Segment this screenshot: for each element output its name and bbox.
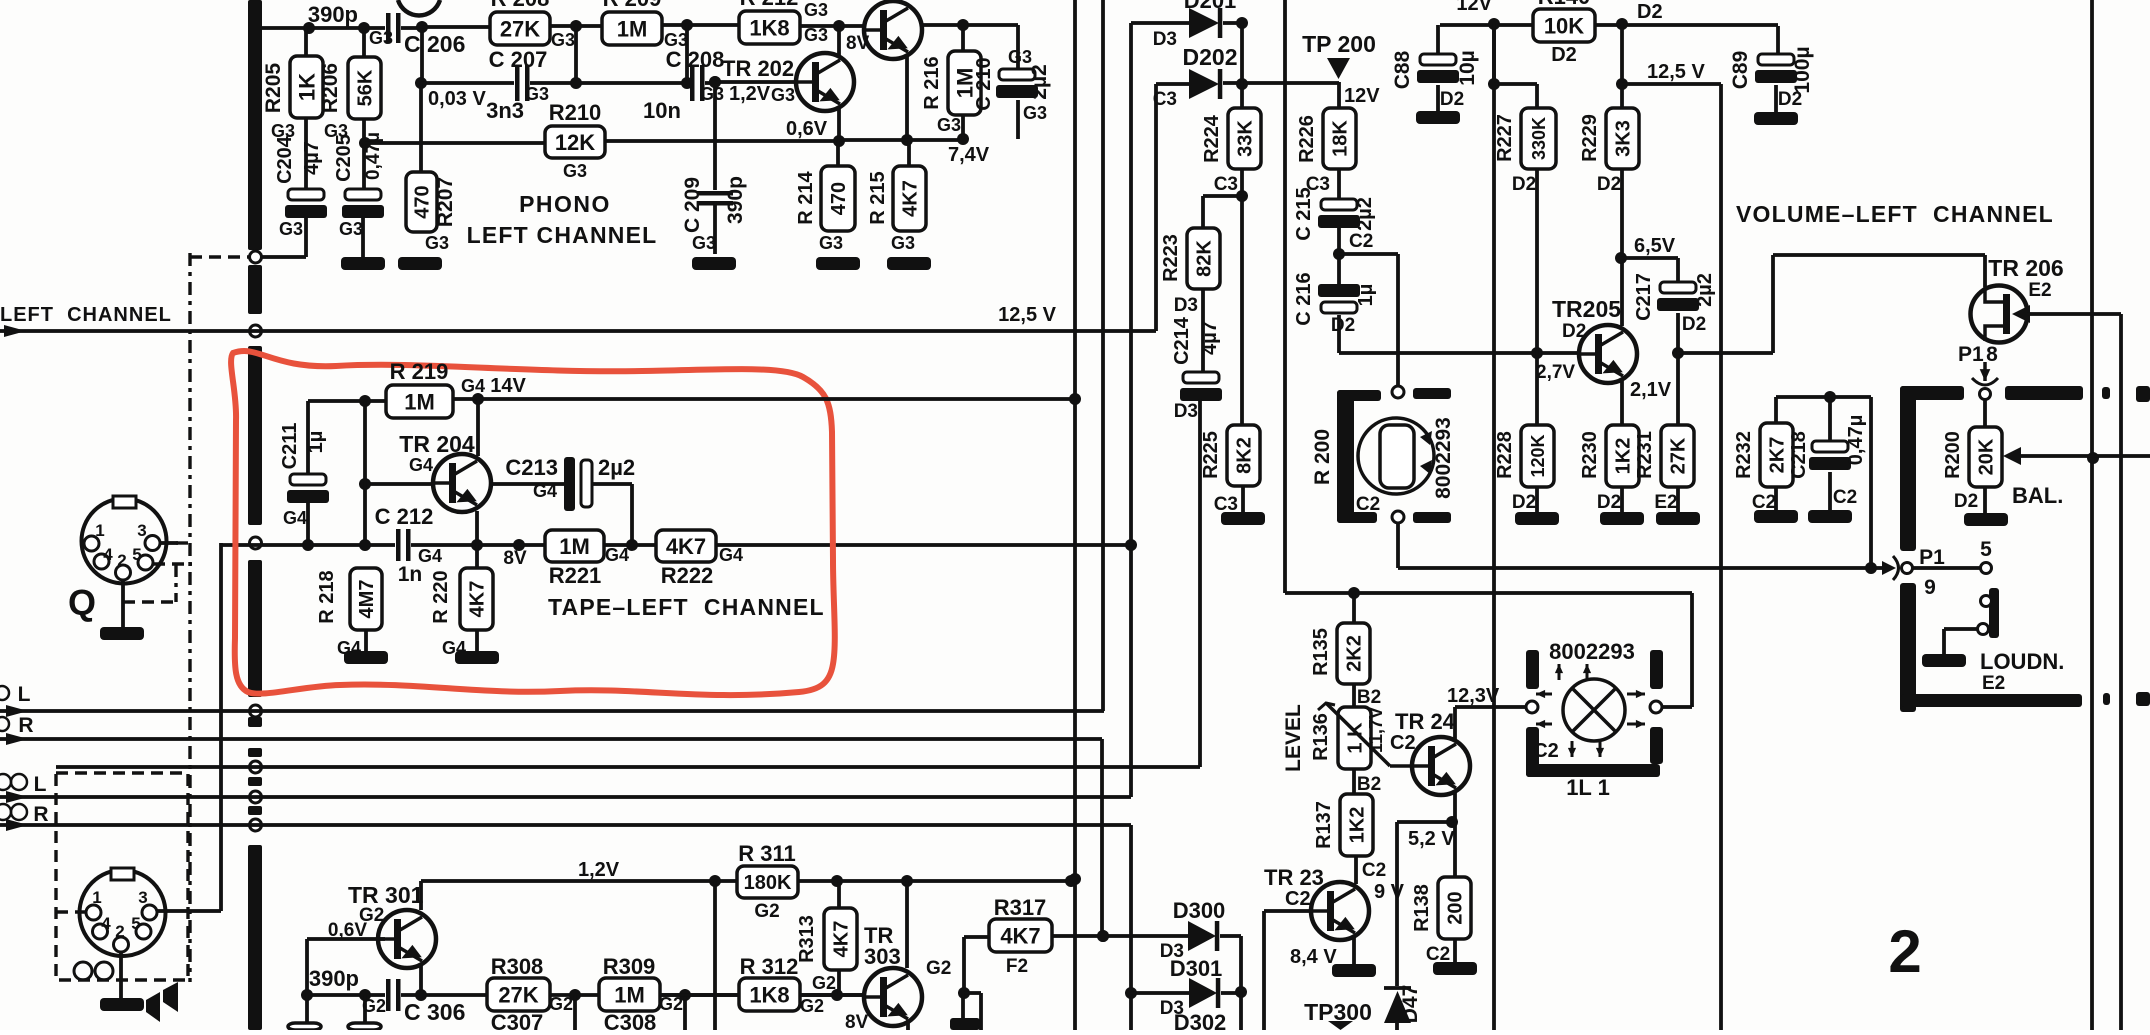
svg-text:L: L [18,683,31,706]
capacitor C212 1n [395,529,411,561]
svg-text:0,03 V: 0,03 V [428,88,486,110]
svg-text:TR 202: TR 202 [722,56,794,81]
svg-text:3n3: 3n3 [486,98,524,123]
svg-text:390p: 390p [308,2,358,27]
resistor R212 1K8 [739,11,800,44]
transistor TR301 [378,910,436,968]
ground pin2 of DIN Q [121,580,125,627]
wire link x687 [662,23,739,27]
svg-text:12,5 V: 12,5 V [998,304,1056,326]
svg-text:3: 3 [138,888,147,907]
label OO R [0,804,11,820]
wire C204 to bus circle [304,216,308,257]
svg-text:56K: 56K [355,69,377,106]
svg-text:LEFT CHANNEL: LEFT CHANNEL [467,222,658,248]
capacitor C88 10u [1436,25,1440,54]
svg-text:2: 2 [115,922,124,941]
node: bus contact circles [250,251,262,263]
resistor R226 18K [1323,108,1356,169]
resistor R137 1K2 [1352,769,1356,794]
svg-text:1M: 1M [559,534,590,559]
transistor TR201 arc (cut at top) [398,0,440,15]
resistor R221 1M [545,530,604,562]
svg-text:470: 470 [828,182,850,215]
svg-text:330K: 330K [1529,117,1549,160]
resistor R210 12K [545,126,605,158]
svg-text:TR205: TR205 [1552,296,1621,322]
svg-text:4µ7: 4µ7 [1199,321,1221,355]
svg-text:R226: R226 [1296,115,1318,163]
resistor R229 3K3 [1606,108,1639,169]
svg-text:R227: R227 [1494,114,1516,162]
svg-text:LEFT CHANNEL: LEFT CHANNEL [0,304,172,326]
svg-text:R225: R225 [1200,431,1222,479]
resistor R308 27K [487,978,550,1011]
svg-text:D2: D2 [1512,174,1536,195]
resistor R209 1M [602,12,662,45]
svg-text:12,5 V: 12,5 V [1647,61,1705,83]
resistor R138 200 [1453,822,1457,877]
wire 0,6V emitter rail y140 [833,135,845,147]
svg-text:D2: D2 [1597,174,1621,195]
svg-text:14V: 14V [490,375,526,397]
wire C216 to TR205 base rail y353 [1337,315,1341,353]
svg-text:G3: G3 [279,219,303,239]
svg-text:12V: 12V [1344,85,1380,107]
svg-text:R317: R317 [994,895,1047,920]
svg-text:12K: 12K [555,130,595,155]
wires DIN Q pins to shield [159,541,178,545]
stub resistors bottom edge [305,995,309,1023]
wire lower DIN pin3 [157,909,221,913]
bar stub right edge [2136,386,2150,402]
svg-text:R210: R210 [549,100,602,125]
svg-text:2,1V: 2,1V [1630,379,1672,401]
svg-text:R206: R206 [319,63,342,113]
svg-text:1M: 1M [617,16,648,41]
svg-text:82K: 82K [1194,240,1216,277]
junction dots middle verticals [1069,393,1081,405]
wire C218 node to P1 wire [1869,397,1873,568]
svg-text:R228: R228 [1494,431,1516,479]
svg-text:5,2 V: 5,2 V [1408,828,1455,850]
svg-text:C89: C89 [1729,51,1752,90]
svg-text:D301: D301 [1170,956,1223,981]
svg-text:8: 8 [1986,343,1998,366]
wire x1537 down [1535,169,1539,425]
wire link x578 [550,24,602,28]
resistor R311 180K [737,866,798,898]
transistor TR303 [864,968,922,1026]
svg-text:1n: 1n [398,563,423,586]
svg-text:8,4 V: 8,4 V [1290,946,1337,968]
svg-text:R 215: R 215 [867,171,889,224]
wire TR301 emitter [419,966,423,995]
wire 14V y399 [453,397,1075,401]
svg-text:C 209: C 209 [681,177,704,233]
svg-text:G2: G2 [549,994,573,1014]
svg-text:C 212: C 212 [375,504,434,529]
motor potentiometer R200 enclosure [1337,390,1354,523]
svg-text:4K7: 4K7 [467,581,489,618]
svg-text:1M: 1M [614,982,645,1007]
svg-text:G2: G2 [754,901,779,922]
diode D201 [1131,21,1189,25]
wire P1 9-5 [1398,566,1884,570]
wire TR24 collector to IL1 [1453,707,1457,739]
resistor R206 56K [362,28,366,57]
node C2 under C215 [1337,228,1341,284]
ground under C205 [361,216,365,257]
svg-text:G2: G2 [926,958,951,979]
svg-text:G3: G3 [771,85,795,105]
svg-text:4K7: 4K7 [900,180,922,217]
svg-text:D300: D300 [1173,898,1226,923]
svg-text:C2: C2 [1362,860,1386,881]
svg-text:27K: 27K [1668,437,1690,474]
wire R317 to D300 [1052,934,1188,938]
wire top rail y28 [262,26,388,30]
svg-text:D2: D2 [1637,1,1663,23]
IL1 arrows [1558,664,1561,680]
wire TR204 base [365,482,433,486]
svg-text:303: 303 [864,944,901,969]
svg-text:1K2: 1K2 [1347,807,1369,844]
record player icon circles [74,962,92,980]
svg-text:C204: C204 [274,135,296,184]
svg-text:C2: C2 [1285,888,1311,910]
svg-text:R135: R135 [1310,628,1332,676]
LOUDN pins [1981,596,1992,607]
wire bus line 4 [0,795,1131,799]
svg-text:R: R [18,714,33,737]
svg-text:D2: D2 [1331,315,1355,336]
svg-text:C217: C217 [1633,273,1655,321]
speaker icons [146,992,160,1022]
wire vertical x2092 (sheet border) [2090,0,2094,1030]
svg-text:C211: C211 [279,423,301,470]
wire C215 tap to lamp [1339,252,1398,256]
wire D201 cathode [1223,21,1242,25]
svg-text:R: R [33,803,48,826]
svg-text:27K: 27K [500,16,540,41]
svg-text:P1: P1 [1919,546,1945,569]
wire TR301 base [307,937,385,941]
svg-text:4K7: 4K7 [666,534,706,559]
svg-text:2K7: 2K7 [1767,437,1789,474]
svg-text:2K2: 2K2 [1344,635,1366,672]
svg-text:G4: G4 [719,545,743,565]
svg-text:G4: G4 [461,376,485,396]
transistor TR204 [433,454,491,512]
transistor TR205 [1579,325,1637,383]
svg-text:D302: D302 [1174,1010,1227,1030]
transistor TR206 [1971,286,2028,343]
wire vertical x1075 [1073,0,1077,1030]
svg-text:G2: G2 [659,994,683,1014]
capacitor C211 1u [306,401,310,474]
capacitor C215 2u2 [1337,169,1341,199]
svg-text:33K: 33K [1235,120,1257,157]
svg-text:G3: G3 [525,84,549,104]
resistor R223 82K [1187,228,1220,289]
wire feedback 12K y143 [365,141,545,145]
svg-text:G3: G3 [891,233,915,253]
resistor R214 470 [836,141,840,166]
svg-text:R205: R205 [262,63,285,114]
DIN connector lower [80,870,166,956]
svg-text:R 219: R 219 [390,359,449,384]
label OO L [0,774,11,790]
svg-text:G3: G3 [1023,103,1047,123]
svg-text:G3: G3 [804,25,828,45]
potentiometer R200 20K BAL [1983,399,1987,427]
svg-text:1µ: 1µ [305,431,327,454]
resistor R215 4K7 [907,140,911,166]
svg-text:18K: 18K [1330,120,1352,157]
wire x715 lower [713,881,717,1030]
capacitor C214 4u7 [1201,289,1205,372]
thick bars around P1-8 [1900,386,1964,400]
svg-text:120K: 120K [1528,434,1548,477]
svg-text:D2: D2 [1440,89,1464,110]
wire TR202 base [715,80,796,84]
svg-text:4K7: 4K7 [831,921,853,958]
svg-text:4M7: 4M7 [356,580,378,619]
label Q L [0,686,9,700]
svg-text:R207: R207 [434,177,457,227]
wire 12V rail y25 [1440,23,1533,27]
capacitor C213 2u2 [491,482,564,486]
svg-text:P1: P1 [1958,343,1984,366]
svg-text:R229: R229 [1579,114,1601,162]
svg-text:C2: C2 [1752,492,1776,513]
svg-text:R230: R230 [1579,431,1601,479]
wire vertical x1102 lower [1100,739,1104,936]
svg-text:390p: 390p [309,966,359,991]
svg-text:R 311: R 311 [738,841,796,866]
svg-text:TR 206: TR 206 [1988,255,2063,281]
svg-text:D3: D3 [1174,401,1198,422]
resistor R224 33K [1228,108,1261,169]
resistor R227 330K [1535,84,1539,108]
svg-text:G3: G3 [563,161,587,181]
transistor TR203 [864,1,922,59]
capacitor C208 10n [689,65,705,101]
svg-text:D201: D201 [1184,0,1237,13]
resistor R216 1M [961,25,965,51]
svg-text:R222: R222 [661,563,714,588]
svg-text:C 206: C 206 [404,31,465,57]
diode D202 [1156,82,1189,86]
svg-text:C2: C2 [1356,494,1380,515]
wire TR204 emitter riser [475,511,479,545]
tick right edge near x2106 [2102,387,2110,399]
svg-text:C213: C213 [505,455,558,480]
svg-text:2: 2 [117,551,126,570]
LOUDN enclosure bars [1900,583,1916,712]
wire riser to D202 [1154,84,1158,331]
wire R136 wiper to TR24 base [1390,764,1412,768]
svg-text:10µ: 10µ [1456,50,1479,85]
svg-text:C205: C205 [333,134,355,182]
capacitor C306 390p [385,979,401,1011]
svg-text:C2: C2 [1390,732,1416,754]
capacitor C218 0,47u [1828,397,1832,441]
svg-text:Q: Q [68,582,96,623]
svg-text:12V: 12V [1456,0,1492,15]
wire R212 to TR203 [800,24,864,28]
resistor R207 470 [419,83,423,172]
svg-text:G3: G3 [425,233,449,253]
resistor R220 4K7 [475,545,479,568]
svg-text:10K: 10K [1544,13,1584,38]
svg-text:8002293: 8002293 [1432,417,1455,499]
svg-text:C 216: C 216 [1293,272,1315,325]
capacitor C217 2u2 [1621,256,1678,260]
dashed link to bus at 257 [190,255,249,258]
svg-text:R 209: R 209 [603,0,662,11]
resistor R309 1M [599,978,660,1011]
resistor R208 27K [422,25,490,29]
wire TR301 collector 1,2V rail [419,881,423,910]
svg-text:G3: G3 [937,115,961,135]
svg-text:C3: C3 [1153,89,1177,110]
svg-text:3K3: 3K3 [1613,120,1635,157]
svg-text:G2: G2 [800,996,824,1016]
svg-text:2µ2: 2µ2 [1694,273,1716,307]
wire bottom rail y995 [307,993,863,997]
svg-text:R224: R224 [1201,114,1223,163]
red annotation loop [231,351,835,695]
svg-text:R 214: R 214 [795,170,817,224]
svg-text:C88: C88 [1391,50,1414,89]
svg-text:390p: 390p [724,176,747,224]
svg-text:180K: 180K [744,872,792,894]
svg-text:G3: G3 [1008,47,1032,67]
wire 12V to R226 [1337,82,1341,108]
svg-text:D2: D2 [1562,321,1586,342]
svg-text:200: 200 [1445,891,1467,924]
capacitor C210 2u2 [1016,25,1020,69]
svg-text:G4: G4 [283,508,307,528]
svg-text:4: 4 [103,545,113,564]
svg-text:R 220: R 220 [430,570,452,623]
transistor TR202 [837,26,841,57]
resistor R140 10K [1533,9,1595,42]
wire lamp bottom to P1 wire [1396,523,1400,568]
wire y594 to R135 [1352,593,1356,623]
transistor TR24 [1412,737,1470,795]
capacitor C204 4u7 [304,118,308,189]
wiper arrow R136 [1326,703,1390,766]
arrow LEFT CHANNEL [4,325,26,337]
capacitor C89 100u [1776,26,1780,54]
svg-text:R136: R136 [1310,713,1332,761]
svg-text:D2: D2 [1682,314,1706,335]
svg-text:1K2: 1K2 [1613,438,1635,475]
svg-text:C218: C218 [1788,431,1810,479]
svg-text:PHONO: PHONO [519,191,611,217]
svg-text:1µ: 1µ [1355,284,1377,307]
svg-text:D2: D2 [1954,491,1978,512]
diode D300 [1188,921,1216,951]
svg-text:D2: D2 [1512,492,1536,513]
resistor R230 1K2 [1606,425,1639,487]
svg-text:L: L [34,773,47,796]
svg-text:1L 1: 1L 1 [1566,775,1610,800]
svg-text:D3: D3 [1174,295,1198,316]
wire LEFT CHANNEL 12,5V line [0,329,1156,333]
svg-text:R 200: R 200 [1311,429,1334,485]
wire C214 down to bus line3 [1198,399,1202,767]
svg-text:R223: R223 [1160,234,1182,282]
svg-text:E2: E2 [1654,492,1677,513]
svg-text:2,7V: 2,7V [1536,362,1575,383]
svg-text:7,4V: 7,4V [948,144,990,166]
svg-text:R 216: R 216 [921,56,943,109]
svg-text:C307: C307 [491,1010,544,1030]
svg-text:R138: R138 [1411,884,1433,932]
svg-text:D2: D2 [1778,89,1802,110]
svg-text:G2: G2 [812,973,836,993]
svg-text:E2: E2 [2028,280,2051,301]
resistor R219 1M [386,385,453,418]
svg-text:1M: 1M [404,389,435,414]
svg-text:1K8: 1K8 [749,982,789,1007]
svg-text:VOLUME–LEFT CHANNEL: VOLUME–LEFT CHANNEL [1736,201,2054,227]
wire vertical x1131 lower [1129,825,1133,1030]
wire bus line 1 (Q L) [0,709,1104,713]
svg-text:2µ2: 2µ2 [1354,197,1376,231]
capacitor C207 3n3 [514,65,530,101]
svg-text:1: 1 [95,521,104,540]
svg-text:4K7: 4K7 [1000,923,1040,948]
wire vertical x2121 [2119,314,2123,1030]
diode D47 [1395,822,1399,986]
wire TR203 to R216/C210 [920,23,1018,27]
svg-text:TAPE–LEFT CHANNEL: TAPE–LEFT CHANNEL [548,594,825,620]
svg-text:R231: R231 [1634,431,1656,479]
capacitor C209 390p [713,83,717,194]
svg-text:C2: C2 [1426,944,1450,965]
svg-text:D2: D2 [1597,492,1621,513]
svg-text:LOUDN.: LOUDN. [1980,649,2064,674]
svg-text:8V: 8V [503,548,527,569]
svg-text:4µ7: 4µ7 [301,141,323,175]
svg-text:R140: R140 [1538,0,1591,9]
label Q R [0,717,9,731]
svg-text:R221: R221 [549,563,602,588]
capacitor C216 1u [1318,284,1360,297]
wire vertical x1242 [1240,23,1244,425]
svg-text:0,6V: 0,6V [786,118,828,140]
wire bus line 2 (Q R) [0,737,1102,741]
svg-text:1,2V: 1,2V [729,83,771,105]
dashed box around lower DIN [56,773,188,980]
svg-text:B2: B2 [1357,774,1381,795]
wire to R223 [1203,194,1242,198]
svg-text:G4: G4 [409,455,433,475]
resistor R312 1K8 [739,978,800,1011]
svg-text:4: 4 [101,914,111,933]
svg-text:5: 5 [131,914,140,933]
svg-text:8V: 8V [845,1012,869,1030]
svg-text:1: 1 [92,888,101,907]
wire TR205 collector column [1620,169,1624,326]
svg-text:F2: F2 [1006,956,1028,977]
wire tape line y545 [221,543,1131,547]
